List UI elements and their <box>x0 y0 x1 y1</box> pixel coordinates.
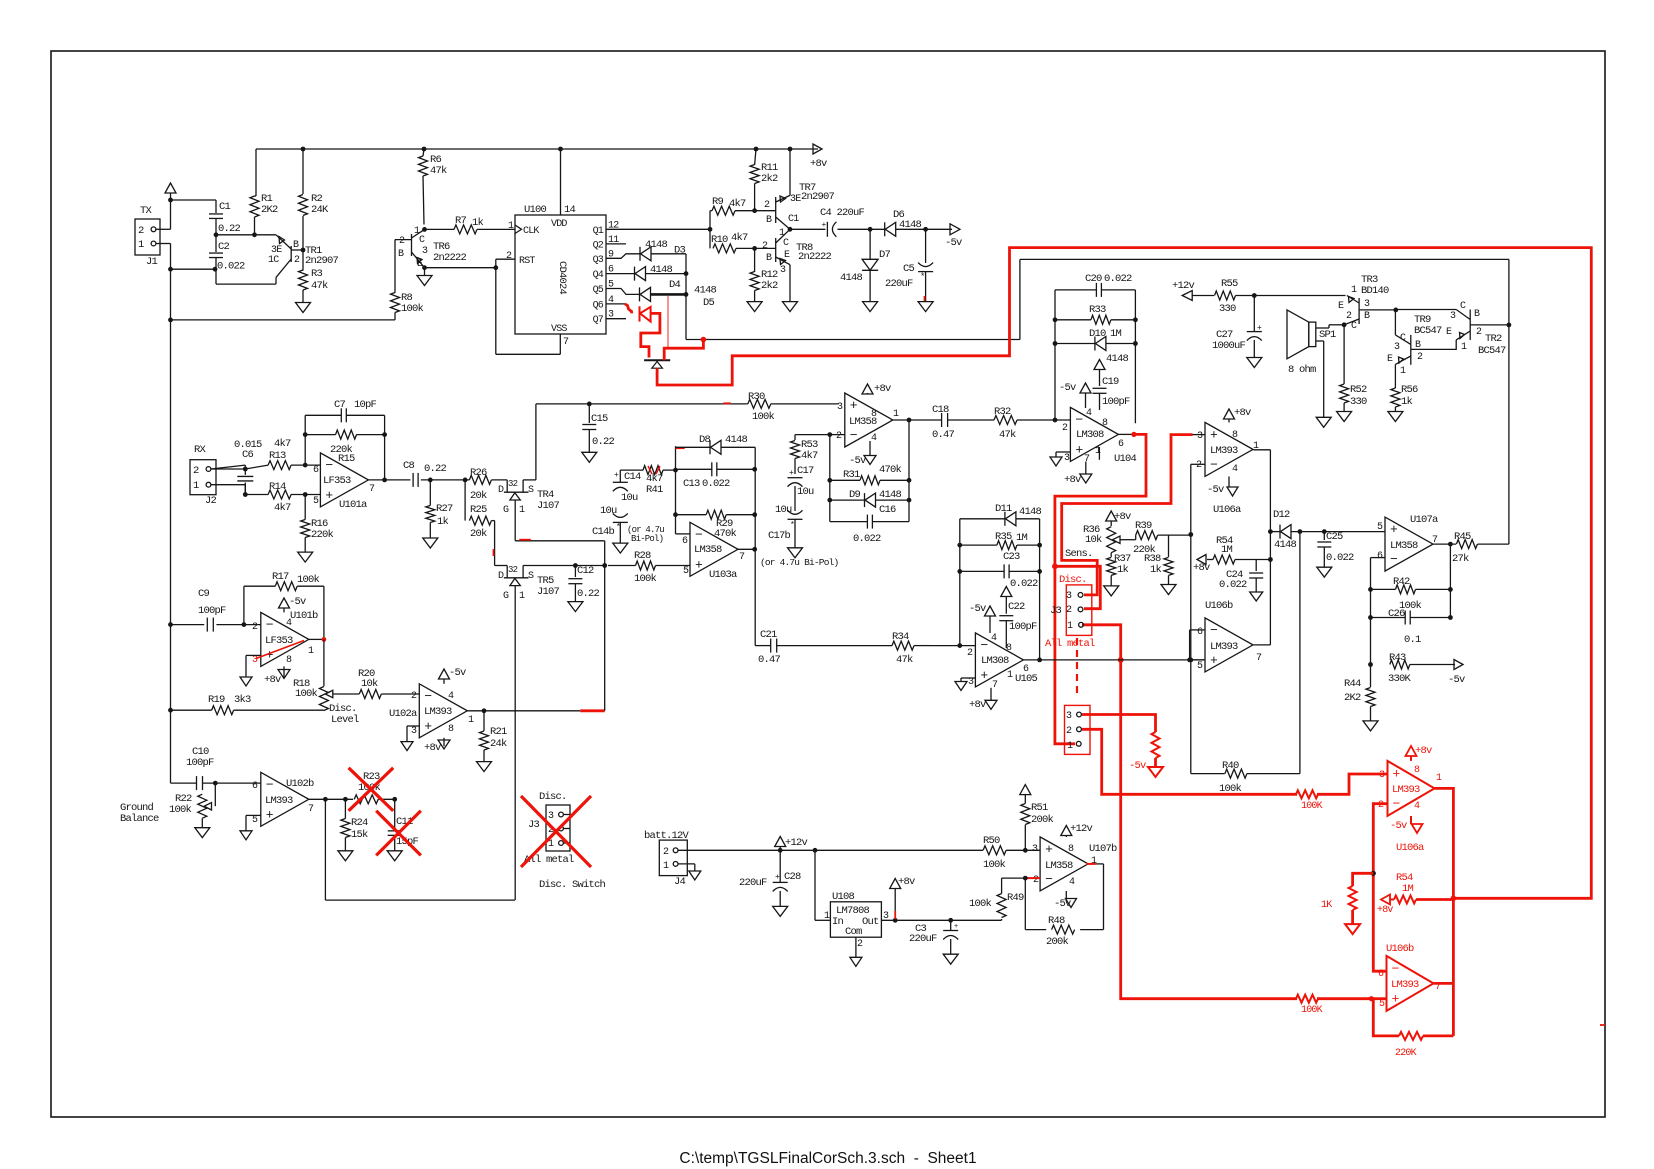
ground J4 pin1 <box>678 863 695 865</box>
wire Q3 to D3 <box>606 254 640 258</box>
ground below R27 <box>423 538 438 548</box>
svg-text:2: 2 <box>252 622 258 633</box>
svg-text:4148: 4148 <box>645 239 668 251</box>
diode D12 <box>1279 525 1281 539</box>
resistor R33 <box>1055 319 1091 321</box>
wire right vertical to speaker box <box>1508 259 1510 544</box>
svg-text:2n2907: 2n2907 <box>305 255 339 267</box>
svg-text:8: 8 <box>448 724 454 735</box>
svg-text:7: 7 <box>308 804 314 815</box>
svg-text:*: * <box>790 521 794 530</box>
wire TR6 emitter to RST jog <box>425 267 496 269</box>
svg-text:20k: 20k <box>470 528 487 540</box>
svg-text:1M: 1M <box>1016 532 1028 544</box>
svg-text:4k7: 4k7 <box>729 198 746 210</box>
ground below C15 <box>582 452 597 462</box>
transistor TR4 J107 <box>506 480 508 492</box>
op-amp U101a LF353 <box>320 453 368 507</box>
red output wire U106b <box>1434 982 1454 985</box>
antenna arrow top <box>165 183 176 193</box>
IC U108 LM7808 <box>830 902 881 937</box>
svg-text:8: 8 <box>1102 418 1108 429</box>
svg-text:+: + <box>1393 766 1401 781</box>
svg-text:U108: U108 <box>832 891 855 903</box>
svg-text:220uF: 220uF <box>909 933 937 945</box>
svg-text:4k7: 4k7 <box>801 450 818 462</box>
output wire U101b <box>309 638 324 640</box>
red net N4 lower pin2 <box>1082 729 1297 794</box>
svg-text:+: + <box>695 557 703 572</box>
svg-text:E: E <box>1446 327 1452 338</box>
wire J1 pin2 to antenna node <box>156 228 171 230</box>
svg-text:6: 6 <box>1378 969 1384 980</box>
svg-text:R19: R19 <box>208 694 225 706</box>
red op-amp U106b repeat <box>1387 956 1434 1011</box>
red tick R30 wire <box>723 402 730 404</box>
svg-text:15k: 15k <box>351 829 368 841</box>
svg-text:5: 5 <box>1197 661 1203 672</box>
svg-text:R48: R48 <box>1048 915 1065 927</box>
svg-text:(or 4.7u Bi-Pol): (or 4.7u Bi-Pol) <box>760 557 839 568</box>
svg-text:Q1: Q1 <box>593 226 604 237</box>
svg-text:6: 6 <box>1023 664 1029 675</box>
svg-text:R32: R32 <box>994 406 1011 418</box>
svg-text:47k: 47k <box>896 654 913 666</box>
svg-text:J3: J3 <box>528 819 540 831</box>
svg-text:1: 1 <box>508 221 514 232</box>
transistor TR9 BC547 <box>1410 335 1412 365</box>
capacitor C22 <box>999 615 1013 617</box>
+8v arrow top rail <box>813 144 822 154</box>
capacitor C24 <box>1255 560 1257 572</box>
pin1 stub U104 <box>1098 447 1100 460</box>
+12v arrow above U107b <box>1061 826 1072 836</box>
svg-text:+: + <box>424 719 432 734</box>
capacitor C4 <box>826 222 828 237</box>
svg-text:U100: U100 <box>524 204 547 216</box>
ground below R56 <box>1388 412 1403 422</box>
svg-text:100k: 100k <box>634 573 657 585</box>
svg-text:32: 32 <box>508 479 518 489</box>
diode D11 <box>960 518 1005 520</box>
svg-text:LM393: LM393 <box>1391 979 1419 991</box>
capacitor C20 <box>1055 289 1096 291</box>
red tick +8v stem <box>894 911 896 919</box>
svg-text:100k: 100k <box>401 303 424 315</box>
red tick C5 lead <box>924 296 926 302</box>
svg-text:U102a: U102a <box>389 708 417 720</box>
svg-text:G: G <box>503 591 509 602</box>
svg-text:6: 6 <box>1118 439 1124 450</box>
svg-text:220uF: 220uF <box>739 877 767 889</box>
svg-text:−: − <box>850 428 858 443</box>
red wire diode anode path <box>641 313 660 357</box>
feedback R48 U107b <box>1103 864 1105 930</box>
svg-text:Q7: Q7 <box>593 315 604 326</box>
wire Q4 to D4 <box>606 273 635 275</box>
capacitor C16 <box>829 519 831 522</box>
svg-text:1: 1 <box>1351 285 1357 296</box>
ground below C24 <box>1250 592 1263 601</box>
wire J4 pin2 main +12 rail <box>678 849 983 851</box>
output wire U101a to C8 <box>368 479 410 481</box>
diode D8 <box>676 446 711 448</box>
svg-text:1M: 1M <box>1110 328 1122 340</box>
svg-text:10u: 10u <box>621 492 638 504</box>
resistor R34 <box>892 641 914 650</box>
resistor R2 <box>302 149 304 194</box>
svg-text:2k2: 2k2 <box>761 280 778 292</box>
svg-text:+12v: +12v <box>1172 280 1195 292</box>
svg-text:7: 7 <box>1256 653 1262 664</box>
svg-text:4k7: 4k7 <box>731 232 748 244</box>
svg-text:RX: RX <box>194 444 207 456</box>
arrow up to D10 row <box>1094 360 1105 370</box>
diode D4 <box>634 267 636 281</box>
red dot R54 right <box>1451 896 1457 902</box>
svg-text:C14b: C14b <box>592 526 615 538</box>
svg-text:200k: 200k <box>1046 936 1069 948</box>
left bus vertical <box>170 244 172 784</box>
wire Q1 node vertical <box>709 211 711 249</box>
resistor R7 <box>425 228 455 230</box>
svg-text:−: − <box>1210 457 1218 472</box>
svg-text:2: 2 <box>193 465 199 477</box>
svg-text:4: 4 <box>1086 408 1092 419</box>
svg-text:C: C <box>1351 321 1357 332</box>
feedback box U104 right vertical <box>1134 290 1136 423</box>
red dot U105 out <box>1118 657 1124 663</box>
svg-text:1k: 1k <box>1401 396 1413 408</box>
connector J3 lower <box>1065 705 1091 754</box>
wire TR8 emitter to ground <box>789 265 791 302</box>
+8v below U104 <box>1085 462 1087 475</box>
svg-text:100k: 100k <box>752 411 775 423</box>
resistor R28 <box>608 565 636 567</box>
resistor R31 <box>830 479 860 481</box>
svg-text:5: 5 <box>313 496 319 507</box>
svg-text:Disc.: Disc. <box>539 791 567 803</box>
red junction dot 1K <box>1371 871 1376 876</box>
svg-text:1: 1 <box>663 861 669 872</box>
svg-text:3: 3 <box>1394 342 1400 353</box>
output wire U105 <box>1023 659 1205 661</box>
svg-text:-5v: -5v <box>1390 820 1407 832</box>
svg-text:−: − <box>266 617 274 632</box>
red output vertical U106a <box>1435 788 1454 1036</box>
feedback vertical R42/C26 <box>1449 544 1451 617</box>
stub Q6 <box>606 303 625 305</box>
svg-text:U104: U104 <box>1114 453 1137 465</box>
wire R2 to R3 <box>302 216 304 271</box>
svg-text:+8v: +8v <box>969 699 986 711</box>
svg-text:C1: C1 <box>788 214 799 225</box>
svg-text:R56: R56 <box>1401 384 1418 396</box>
svg-text:LM358: LM358 <box>1390 540 1418 552</box>
svg-text:B: B <box>1474 309 1480 320</box>
svg-text:0.47: 0.47 <box>932 429 955 441</box>
svg-text:5: 5 <box>683 566 689 577</box>
svg-text:10k: 10k <box>361 678 378 690</box>
feedback box U103a left vertical <box>675 446 677 534</box>
capacitor C9 <box>206 618 208 632</box>
resistor R25 <box>464 480 466 521</box>
svg-text:-5v: -5v <box>1448 674 1465 686</box>
red X over C11 <box>376 811 421 856</box>
svg-text:C5: C5 <box>903 263 915 275</box>
svg-text:1: 1 <box>468 715 474 726</box>
node C1 junction <box>788 227 793 232</box>
op-amp U103a LM358 <box>690 522 738 576</box>
resistor R30 <box>748 399 771 408</box>
ground below C28 <box>773 906 788 916</box>
svg-text:C9: C9 <box>198 588 210 600</box>
red net N5 lower pin3 to -5v resistor <box>1082 715 1156 733</box>
svg-text:100pF: 100pF <box>186 757 214 769</box>
svg-text:Q3: Q3 <box>593 255 604 266</box>
output wire U107b red <box>1087 863 1096 865</box>
svg-text:E: E <box>784 250 790 261</box>
svg-text:Sens.: Sens. <box>1065 548 1093 560</box>
transistor TR2 BC547 <box>1469 310 1471 340</box>
svg-text:10k: 10k <box>1085 534 1102 546</box>
svg-text:RST: RST <box>519 256 535 267</box>
red diode at Q6 <box>625 304 632 314</box>
svg-text:7: 7 <box>369 484 375 495</box>
svg-text:100k: 100k <box>169 804 192 816</box>
diode D10 <box>1055 343 1095 345</box>
svg-text:3: 3 <box>1064 453 1070 464</box>
wire pin2 U105 <box>930 645 975 647</box>
svg-text:R9: R9 <box>712 196 724 208</box>
wire D3-D4-D5 junction vertical <box>685 254 687 340</box>
red resistor -5v <box>1152 732 1160 758</box>
svg-text:C2: C2 <box>218 241 230 253</box>
svg-text:1k: 1k <box>472 217 484 229</box>
svg-text:C25: C25 <box>1326 531 1343 543</box>
svg-text:330K: 330K <box>1388 673 1412 685</box>
wire rail to R1 <box>255 149 257 196</box>
connector J3 upper Disc <box>1066 585 1092 636</box>
svg-text:2: 2 <box>1033 875 1039 886</box>
resistor R6 <box>423 149 424 156</box>
svg-text:8: 8 <box>1414 765 1420 776</box>
wire pin3 U106a black <box>1193 434 1206 436</box>
svg-text:2: 2 <box>399 236 405 247</box>
capacitor C18 <box>941 413 943 427</box>
svg-text:Disc. Switch: Disc. Switch <box>539 879 606 891</box>
svg-text:+: + <box>1075 442 1083 457</box>
svg-text:LM393: LM393 <box>1210 641 1238 653</box>
op-amp U105 LM308 <box>975 633 1023 687</box>
svg-text:3: 3 <box>1379 770 1385 781</box>
resistor R45 <box>1456 540 1477 549</box>
svg-text:4148: 4148 <box>1274 539 1297 551</box>
resistor R40 <box>1191 773 1225 775</box>
svg-text:R39: R39 <box>1135 520 1152 532</box>
svg-text:+8v: +8v <box>1114 511 1131 523</box>
svg-text:5: 5 <box>1377 522 1383 533</box>
red mosfet symbol <box>644 359 670 361</box>
arrow above C22 <box>1001 587 1012 597</box>
svg-text:2: 2 <box>762 241 768 252</box>
svg-text:3: 3 <box>1066 591 1072 602</box>
svg-text:C8: C8 <box>403 460 415 472</box>
svg-text:3: 3 <box>780 265 786 276</box>
red X over disc switch <box>521 796 591 867</box>
svg-text:C4 220uF: C4 220uF <box>820 207 865 219</box>
svg-text:0.022: 0.022 <box>1326 552 1354 564</box>
svg-text:1: 1 <box>519 591 525 602</box>
svg-text:R49: R49 <box>1007 892 1024 904</box>
capacitor C2 <box>215 235 217 252</box>
ground pin3 U101b <box>246 654 261 656</box>
output wire U103b <box>893 419 941 421</box>
svg-text:R26: R26 <box>470 467 487 479</box>
red +8v arrow above U106a <box>1406 746 1417 756</box>
capacitor C3 electrolytic <box>950 920 952 930</box>
ground below R24 <box>338 851 353 861</box>
capacitor C23 <box>960 570 1004 572</box>
svg-text:2: 2 <box>1476 327 1482 338</box>
op-amp U106a LM393 <box>1205 422 1253 476</box>
svg-text:0.022: 0.022 <box>1219 579 1247 591</box>
svg-text:4148: 4148 <box>840 272 863 284</box>
svg-text:+: + <box>1045 842 1053 857</box>
svg-text:3: 3 <box>1032 844 1038 855</box>
svg-text:3: 3 <box>968 677 974 688</box>
svg-text:+8v: +8v <box>810 158 827 170</box>
svg-text:C17: C17 <box>797 465 814 477</box>
output wire U104 red dot <box>1118 433 1134 435</box>
connector J2 RX <box>190 460 216 495</box>
feedback box right vertical <box>754 447 756 549</box>
ground below C12 <box>568 602 583 612</box>
capacitor C26 <box>1371 617 1406 619</box>
resistor R49 <box>1001 919 1003 920</box>
wire bus to R8 bottom <box>171 319 396 321</box>
svg-text:20k: 20k <box>470 490 487 502</box>
wire C2 bottom to TR1 collector <box>216 283 276 285</box>
wire bus to C10 <box>171 782 197 784</box>
op-amp U101b LF353 <box>261 612 309 666</box>
pin2 feedback vertical U103b <box>830 434 845 436</box>
svg-text:+: + <box>850 398 858 413</box>
svg-text:J3: J3 <box>1050 605 1062 617</box>
ground below R22 <box>195 828 210 838</box>
svg-text:B: B <box>293 240 299 251</box>
potentiometer R36 <box>1107 527 1116 553</box>
wire TR5 gate down <box>514 586 516 901</box>
svg-text:R31: R31 <box>843 469 860 481</box>
IC U100 CD4024 <box>515 215 606 334</box>
svg-text:1: 1 <box>1400 366 1406 377</box>
capacitor C14b electrolytic <box>613 521 628 523</box>
svg-text:8: 8 <box>1006 643 1012 654</box>
resistor R35 <box>960 544 997 546</box>
svg-text:*: * <box>920 272 925 282</box>
svg-text:1K: 1K <box>1321 900 1332 911</box>
svg-text:2: 2 <box>138 225 144 237</box>
svg-text:U103a: U103a <box>709 569 737 581</box>
wire TR6 base to R8 <box>394 240 396 293</box>
red junction dot on anode bus <box>701 337 707 343</box>
capacitor C28 electrolytic <box>779 850 781 882</box>
resistor R39 <box>1136 531 1158 540</box>
svg-text:-5v: -5v <box>945 237 962 249</box>
svg-text:E: E <box>417 259 423 270</box>
red wire mosfet bottom to right riser <box>657 248 1591 899</box>
-5v arrow right <box>950 224 960 235</box>
svg-text:1: 1 <box>893 409 899 420</box>
capacitor C27 electrolytic <box>1253 296 1255 332</box>
red tick top of C13 box <box>676 447 685 449</box>
red -5v below U106a <box>1410 816 1412 824</box>
red branch to J3 upper pin2 <box>1055 566 1100 608</box>
svg-text:D10: D10 <box>1089 328 1106 340</box>
capacitor C10 <box>196 776 198 790</box>
svg-text:100k: 100k <box>297 574 320 586</box>
diode D6 <box>884 222 886 236</box>
svg-text:1: 1 <box>308 646 314 657</box>
svg-text:32: 32 <box>508 565 518 575</box>
op-amp U103b LM358 <box>845 393 893 447</box>
ground below R52 <box>1337 412 1352 422</box>
resistor R37 <box>1107 557 1116 575</box>
svg-text:3: 3 <box>1450 311 1456 322</box>
red segment pin2 U107b <box>1025 877 1040 879</box>
svg-text:B: B <box>766 215 772 226</box>
red ground below 1K <box>1345 924 1360 934</box>
wire to U108 In <box>814 850 816 920</box>
svg-text:0.022: 0.022 <box>853 533 881 545</box>
svg-text:B: B <box>1364 311 1370 322</box>
resistor R10 <box>713 244 736 253</box>
wire anode bus to C20 box <box>686 339 1020 341</box>
ground speaker <box>1316 417 1331 427</box>
svg-text:TX: TX <box>140 205 153 217</box>
potentiometer R18 <box>319 687 328 711</box>
svg-text:2K2: 2K2 <box>261 204 278 216</box>
wire TR4 gate to TR5 source node <box>514 500 516 541</box>
svg-text:U106a: U106a <box>1213 504 1241 516</box>
connector J3 disc switch crossed <box>546 805 570 851</box>
ground below R16 <box>298 552 313 562</box>
svg-text:2: 2 <box>1066 726 1072 737</box>
capacitor C7 <box>340 408 342 422</box>
svg-text:LM308: LM308 <box>1076 429 1104 441</box>
svg-text:CLK: CLK <box>523 226 539 237</box>
red wire to 1K resistor <box>1353 873 1374 886</box>
svg-text:S: S <box>528 571 534 582</box>
svg-text:0.022: 0.022 <box>217 261 245 273</box>
svg-text:3: 3 <box>422 246 428 257</box>
svg-text:R25: R25 <box>470 504 487 516</box>
svg-text:0.22: 0.22 <box>424 463 447 475</box>
red segment U102a out <box>580 709 604 712</box>
diode D5 <box>639 287 641 301</box>
svg-text:100pF: 100pF <box>198 605 226 617</box>
svg-text:R50: R50 <box>983 835 1000 847</box>
ground below C5 <box>918 302 933 312</box>
output wire U107a <box>1433 543 1456 545</box>
op-amp U104 LM308 <box>1070 407 1118 461</box>
svg-text:1: 1 <box>1091 856 1097 867</box>
svg-text:+8v: +8v <box>1415 745 1432 757</box>
svg-text:2: 2 <box>967 648 973 659</box>
svg-text:C18: C18 <box>932 404 949 416</box>
svg-text:R33: R33 <box>1089 304 1106 316</box>
